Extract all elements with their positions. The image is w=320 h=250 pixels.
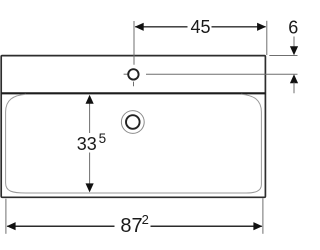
arrow 87.2 left	[7, 222, 16, 230]
dimension line 45	[135, 26, 187, 28]
arrow 45 right	[257, 23, 266, 31]
extension line 87.2 left	[5, 199, 7, 234]
svg-text:45: 45	[190, 17, 210, 37]
extension line 87.2 right	[262, 198, 264, 234]
dimension 6 lower arrow	[290, 74, 298, 83]
faucet hole tick below	[133, 82, 135, 87]
dimension 6 upper arrow	[293, 37, 295, 48]
faucet hole tick left	[124, 73, 128, 75]
basin front edge thick line	[1, 92, 265, 94]
arrow 33.5 top	[86, 95, 94, 104]
faucet hole centerline horizontal / extension line 6 bottom	[146, 73, 298, 75]
washbasin outer rectangle	[1, 56, 265, 198]
basin inner rim	[6, 94, 262, 193]
drain inner circle	[126, 115, 140, 129]
extension line 6 top	[269, 55, 297, 57]
extension line 45 right	[266, 21, 268, 55]
faucet hole	[128, 69, 138, 79]
dimension line 33.5	[89, 104, 91, 134]
dimension line 87.2	[7, 225, 114, 227]
arrow 45 left	[135, 23, 144, 31]
svg-text:6: 6	[288, 17, 298, 37]
drain outer circle	[121, 111, 144, 134]
arrow 87.2 right	[253, 222, 262, 230]
faucet hole centerline vertical / extension line 45 left	[133, 21, 135, 65]
arrow 33.5 bottom	[86, 183, 94, 192]
label 33.5 halo	[75, 134, 108, 153]
